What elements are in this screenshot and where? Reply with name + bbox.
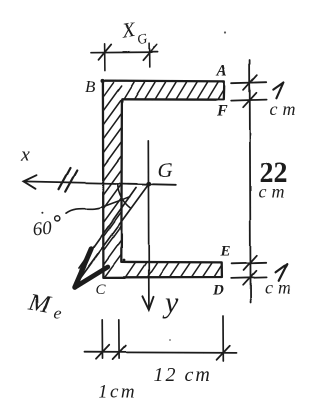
bottom ext line web right	[118, 320, 120, 359]
bottom 1cm lower slash	[243, 271, 256, 285]
svg-text:x: x	[21, 144, 31, 166]
svg-text:e: e	[52, 303, 63, 323]
y-axis arrowhead	[142, 296, 153, 310]
svg-text:X: X	[119, 17, 138, 43]
svg-text:A: A	[216, 63, 228, 80]
svg-text:cm: cm	[265, 278, 296, 298]
X_G left extension line	[104, 44, 106, 71]
svg-text:y: y	[162, 286, 179, 319]
top 1cm upper tick	[232, 82, 267, 83]
svg-text:D: D	[212, 283, 224, 299]
scan speck top right	[224, 31, 226, 33]
top 1cm upper slash	[244, 75, 257, 90]
Me arrowhead barb lower	[75, 267, 108, 287]
svg-text:cm: cm	[259, 182, 290, 202]
label 1 cm bottom right	[276, 264, 288, 281]
X_G right tick slash	[143, 45, 156, 60]
bottom 1cm upper slash	[244, 256, 257, 271]
svg-text:12 cm: 12 cm	[154, 364, 212, 386]
X_G left tick slash	[99, 44, 112, 59]
label Me	[26, 288, 66, 323]
Me arrow shaft stroke 2	[79, 188, 136, 269]
bottom 1cm upper tick	[232, 263, 267, 264]
bottom 1cm lower tick	[231, 277, 266, 278]
axis break slash 1	[59, 168, 71, 189]
svg-text:M: M	[26, 288, 53, 319]
Me arrow shaft stroke 1	[81, 184, 149, 278]
svg-text:cm: cm	[270, 99, 301, 119]
svg-text:1cm: 1cm	[98, 382, 137, 403]
ink dot above 60 label	[41, 212, 43, 214]
leader curve from 60deg label	[66, 197, 130, 214]
right dimension vertical line	[250, 60, 251, 303]
centroid G dot	[146, 181, 151, 186]
X_G right extension line	[149, 43, 151, 67]
svg-text:E: E	[220, 244, 231, 260]
small blot at inner corner	[123, 259, 126, 262]
label 1 cm top right	[273, 83, 283, 99]
svg-text:G: G	[158, 158, 173, 182]
svg-text:C: C	[96, 282, 107, 298]
x-axis line	[24, 181, 176, 184]
axis break slash 2	[65, 171, 77, 192]
bottom tick slash 1	[96, 345, 109, 359]
label X_G	[119, 15, 149, 50]
X_G dimension line	[91, 51, 158, 54]
top 1cm lower tick	[231, 100, 266, 101]
top 1cm lower slash	[243, 93, 256, 107]
top flange hatching	[124, 82, 224, 98]
y-axis line	[147, 141, 150, 310]
Me arrowhead barb upper	[75, 249, 91, 287]
bottom ext line right	[222, 316, 224, 361]
C-channel profile outline B-A-F-E-D-C	[103, 81, 224, 278]
svg-text:60: 60	[32, 218, 54, 241]
svg-text:G: G	[137, 32, 150, 49]
bottom ext line web left	[101, 320, 103, 359]
web hatching	[104, 83, 121, 277]
scan speck mid bottom	[169, 339, 171, 341]
bottom dimension line	[85, 351, 237, 354]
point B dot	[101, 78, 105, 82]
svg-text:F: F	[216, 103, 228, 120]
svg-text:B: B	[85, 77, 96, 96]
bottom tick slash 3	[217, 346, 230, 360]
bottom tick slash 2	[113, 346, 126, 360]
x-axis arrowhead	[24, 175, 37, 189]
60 degree angle arc	[118, 183, 131, 208]
bottom flange hatching	[126, 263, 221, 276]
label 60 degrees	[32, 216, 62, 241]
